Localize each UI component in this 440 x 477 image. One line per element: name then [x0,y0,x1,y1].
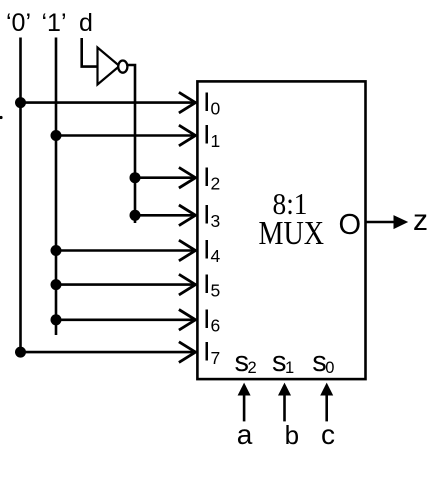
svg-text:MUX: MUX [259,215,325,252]
wire I0 input row [21,101,197,104]
svg-text:I6: I6 [203,304,220,336]
wire rail from '0' [19,38,22,353]
wire I7 input row [21,351,197,354]
wire I1 input row [56,134,196,137]
wire I2 input row [135,176,196,179]
arrowhead select s0 [320,383,333,396]
junction dot I6 [51,314,62,325]
arrowhead I3 [179,205,196,226]
svg-text:I7: I7 [203,336,220,368]
wire select c to s0 [325,394,328,421]
mux U1 8:1 MUX body [197,81,365,379]
arrowhead I0 [179,92,196,113]
wire I4 input row [56,249,196,252]
svg-text:O: O [339,209,362,241]
svg-text:d: d [79,9,93,37]
arrowhead I4 [179,240,196,261]
wire I3 input row [135,214,196,217]
svg-text:z: z [413,204,428,237]
arrowhead I1 [179,125,196,146]
junction dot I5 [51,279,62,290]
junction dot I0 [15,97,26,108]
inverter (NOT gate) on d [98,48,128,85]
wire select a to s2 [243,394,246,421]
arrowhead I7 [179,342,196,363]
arrowhead select s1 [278,383,291,396]
wire rail from '1' [55,38,58,336]
junction dot I2 [130,172,141,183]
svg-text:‘1’: ‘1’ [42,9,67,37]
svg-text:c: c [321,419,335,450]
svg-text:I1: I1 [203,120,220,152]
svg-text:I5: I5 [203,269,220,301]
arrowhead I6 [179,310,196,331]
svg-text:s1: s1 [272,346,294,378]
junction dot I4 [51,245,62,256]
svg-text:‘0’: ‘0’ [6,9,31,37]
svg-text:I4: I4 [203,235,221,267]
wire d to inverter input [82,38,97,67]
svg-text:I0: I0 [203,87,221,119]
junction dot I1 [51,130,62,141]
svg-text:s0: s0 [312,346,334,378]
wire I5 input row [56,283,196,286]
arrowhead I2 [179,167,196,188]
arrowhead output [394,215,409,229]
wire inverter output down to I2/I3 [128,65,135,223]
wire I6 input row [56,318,196,321]
svg-text:b: b [285,420,299,450]
arrowhead I5 [179,274,196,295]
wire output O [366,221,397,224]
arrowhead select s2 [238,383,251,396]
svg-text:s2: s2 [235,346,257,378]
junction dot I7 [15,347,26,358]
wire select b to s1 [283,394,286,421]
junction dot I3 [130,210,141,221]
svg-text:a: a [237,419,253,450]
svg-text:I2: I2 [203,162,220,194]
svg-text:I3: I3 [203,200,220,232]
